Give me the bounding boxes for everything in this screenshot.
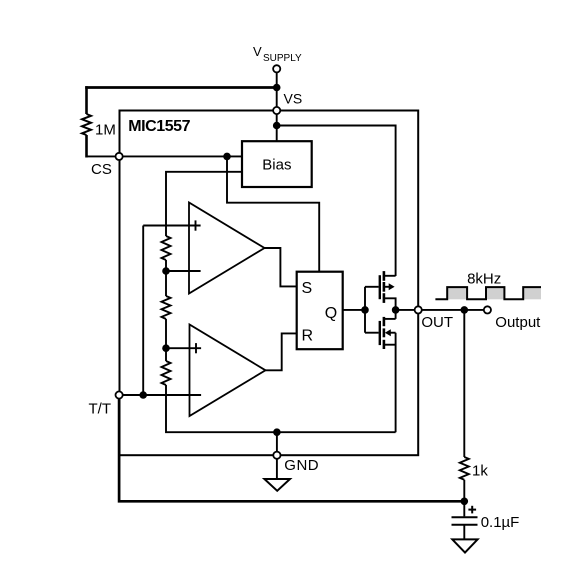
plus sign capacitor (468, 509, 476, 511)
svg-text:CS: CS (91, 161, 112, 178)
wire NMOS gate lead (365, 332, 379, 334)
8kHz waveform trace (435, 287, 541, 299)
node ground rail (273, 428, 281, 436)
wire OUT line (396, 309, 488, 311)
8kHz waveform gray fills (447, 287, 541, 299)
wire NMOS body/source down to ground rail (395, 333, 397, 433)
wire VS inner routing to right (277, 126, 396, 277)
flip-flop box (297, 272, 343, 350)
wire divider to ground rail (166, 385, 396, 432)
wire V_SUPPLY vertical (276, 69, 278, 141)
wire feedback from T/T (thick) (119, 397, 464, 501)
wire GND pin drop (276, 432, 278, 479)
wire CS-to-flipflop routing (227, 156, 319, 271)
resistor R5 1k (460, 457, 469, 480)
terminal Output (484, 306, 491, 313)
terminal V_SUPPLY (273, 65, 280, 72)
node feedback/cap (461, 498, 469, 506)
svg-text:8kHz: 8kHz (467, 270, 501, 287)
node supply/1M (273, 84, 281, 92)
node drain/OUT (392, 306, 400, 314)
NMOS drain stub (384, 318, 396, 320)
svg-text:S: S (302, 280, 313, 297)
wire T/T line to A2 - input (119, 394, 201, 396)
node divider upper tap (162, 267, 170, 275)
Bias box (242, 141, 312, 187)
svg-text:V: V (253, 44, 262, 59)
node T/T (139, 391, 147, 399)
svg-text:1M: 1M (95, 122, 116, 139)
pin VS (273, 107, 280, 114)
wire comparator A1 + input (143, 225, 200, 227)
ground symbol (GND pin) (264, 479, 290, 491)
svg-text:T/T: T/T (89, 401, 112, 418)
wire comparator A1 output to S (265, 248, 297, 286)
wire 1k branch (463, 310, 465, 457)
resistor R4 (bottom of divider) (162, 361, 171, 385)
svg-text:OUT: OUT (421, 314, 453, 331)
svg-text:1k: 1k (472, 463, 488, 480)
pin CS (116, 153, 123, 160)
wire comparator A1 - input (166, 270, 201, 272)
wire PMOS gate lead (365, 286, 379, 288)
svg-text:SUPPLY: SUPPLY (263, 53, 302, 64)
wire divider mid1 (165, 260, 167, 296)
node output/1k (461, 306, 469, 314)
PMOS body stub with arrow (384, 286, 390, 288)
pin OUT (415, 306, 422, 313)
wire comparator A2 + input (166, 347, 201, 349)
capacitor C1 0.1uF (463, 501, 465, 516)
resistor R1 1M (82, 114, 91, 135)
NMOS body stub with arrow (390, 332, 396, 334)
MIC1557 outer box U1 (120, 111, 419, 456)
node gate (361, 306, 369, 314)
svg-text:VS: VS (284, 91, 303, 107)
op-amp comparator A1 (top) (189, 203, 265, 294)
pin GND (273, 452, 280, 459)
wire T/T riser (142, 226, 144, 396)
NMOS source stub (384, 344, 396, 346)
wire gate column (364, 287, 366, 333)
plus sign A2 (195, 343, 197, 353)
transistor Q1 PMOS (380, 271, 384, 303)
terminal circles (116, 65, 492, 459)
wire Q to gates (343, 309, 365, 311)
svg-text:GND: GND (284, 457, 319, 474)
wire capacitor to ground (463, 525, 465, 540)
wire 1M lower lead (85, 135, 88, 158)
plus sign A1 (195, 220, 197, 230)
PMOS source stub (384, 275, 396, 277)
svg-text:MIC1557: MIC1557 (128, 118, 190, 135)
resistor R3 (middle of divider) (162, 296, 171, 319)
ground symbol (capacitor) (452, 539, 477, 552)
svg-text:0.1µF: 0.1µF (481, 514, 520, 531)
node divider lower tap (162, 344, 170, 352)
wire supply top rail (thick) (85, 86, 277, 89)
wire comparator A2 output to R (266, 333, 297, 370)
svg-text:Bias: Bias (262, 157, 291, 174)
wire Bias lower-left input (166, 172, 242, 236)
wire divider mid2 (165, 319, 167, 361)
wire CS line (86, 155, 243, 157)
node VS inner (273, 122, 281, 130)
pin T/T (116, 391, 123, 398)
node CS line (223, 153, 231, 161)
resistor R2 (top of divider) (162, 236, 171, 260)
PMOS drain stub (384, 298, 396, 319)
svg-text:Q: Q (325, 305, 337, 322)
transistor Q2 NMOS (380, 317, 384, 349)
wire 1M upper lead (85, 86, 88, 114)
wire 1k lower lead (463, 480, 465, 502)
svg-text:R: R (302, 327, 314, 344)
svg-text:Output: Output (495, 314, 541, 331)
op-amp comparator A2 (bottom) (190, 325, 266, 417)
